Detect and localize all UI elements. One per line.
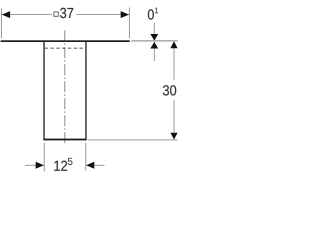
extension line right of dim 37: [128, 8, 130, 39]
extension line plate level right: [131, 40, 178, 42]
dim 30 upper segment: [173, 48, 175, 80]
center line: [64, 30, 66, 144]
dim 12.5 right tail: [94, 164, 104, 166]
square symbol of label 37: [54, 12, 58, 16]
extension line left of dim 37: [0, 9, 2, 39]
dim 0.1 lower tail: [153, 49, 155, 62]
dim line 37 right segment: [77, 14, 130, 16]
label superscript 1: [155, 8, 158, 14]
tube bottom edge: [43, 139, 86, 141]
dim 30 up arrow: [170, 41, 177, 48]
dim 0.1 up arrow: [150, 42, 158, 49]
label 30: [163, 85, 176, 95]
label superscript 5: [68, 158, 73, 165]
label 0: [148, 9, 154, 19]
dim 12.5 left tail: [25, 164, 36, 166]
dim 0.1 down arrow: [150, 34, 158, 41]
flange plate: [1, 40, 130, 42]
label 12: [54, 161, 67, 171]
extension line tube bottom level right: [88, 139, 178, 141]
label 37: [60, 8, 73, 18]
dim line 37 left segment: [2, 14, 52, 16]
tube left wall: [43, 42, 44, 140]
dim 30 lower segment: [173, 100, 175, 132]
arrow right of dim 37: [121, 11, 129, 18]
dim 12.5 right arrow: [86, 162, 94, 169]
dim 0.1 upper line: [153, 23, 155, 35]
dim 12.5 left arrow: [36, 162, 44, 169]
extension line right of dim 12.5: [85, 143, 87, 171]
extension line left of dim 12.5: [43, 143, 45, 172]
tube right wall: [85, 42, 86, 140]
arrow left of dim 37: [2, 11, 10, 18]
dim 30 down arrow: [170, 133, 177, 140]
hidden edge dashed line: [45, 47, 86, 49]
